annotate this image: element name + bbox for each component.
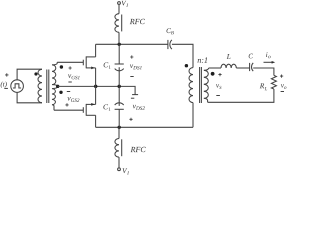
resistor RL [271, 75, 276, 89]
label C1 (top) [104, 62, 111, 68]
choke RFC2 [115, 139, 122, 158]
label C1 (bottom) [103, 104, 110, 110]
wire secondary top lead to L [209, 67, 221, 69]
label n:1 [198, 57, 208, 62]
label io with arrow [264, 52, 276, 63]
label vDS2 with - and + [129, 98, 144, 121]
label RFC (top) [130, 19, 145, 24]
transformer T2 secondary winding [204, 68, 209, 102]
terminal VI top [118, 2, 121, 5]
transformer T2 secondary dot [211, 72, 215, 76]
transistor Q2 (bottom MOSFET) [83, 103, 95, 116]
capacitor C1 top [115, 64, 124, 71]
wire bottom rail [96, 126, 193, 128]
label vGS2 with - above and + below [65, 92, 79, 107]
source VG square-wave generator [11, 80, 24, 93]
ground [132, 94, 138, 96]
label L [227, 54, 231, 59]
wire top rail [96, 43, 168, 45]
label C [249, 54, 253, 59]
transformer T1 primary winding [38, 69, 42, 102]
wire RFC2 to VI terminal [118, 157, 120, 168]
transformer T2 primary winding [189, 68, 193, 103]
transformer T1 primary dot [34, 72, 37, 75]
wire L to C [236, 67, 249, 69]
transformer T1 core [47, 70, 49, 104]
node bottom rail junction [118, 126, 121, 129]
wire C1 top column [118, 44, 120, 64]
wire VI to RFC1 [118, 4, 120, 13]
node center-tap junction on middle rail [56, 85, 59, 88]
label RL [260, 83, 267, 90]
wire C1 bottom to bottom rail [118, 109, 120, 127]
wire VG top lead to T1 primary [17, 69, 42, 80]
wire sources column Q1-Q2 through middle rail [95, 68, 97, 105]
wire RL to load bottom return [208, 89, 274, 102]
wire C to load corner [253, 68, 274, 75]
wire CB to T2 primary riser [172, 44, 193, 67]
wire gate lead to Q2 [54, 109, 83, 111]
wire RFC1 to top rail [118, 32, 120, 44]
wire C1 top to middle rail [118, 67, 120, 86]
inductor L [221, 64, 236, 68]
label vGS1 with + above and - below [68, 66, 80, 82]
wire Q1 drain riser to top rail [95, 44, 97, 57]
transformer T1 secondary 2 winding [52, 86, 58, 110]
label CB [167, 28, 174, 34]
capacitor C1 bottom [115, 103, 124, 110]
label vo with + and - [280, 75, 286, 92]
transformer T1 secondary 2 dot [59, 91, 62, 94]
transistor Q1 (top MOSFET) [83, 56, 95, 69]
transformer T2 core [200, 67, 202, 103]
terminal VI bottom [118, 168, 121, 171]
wire Q2 drain drop to bottom rail [95, 115, 97, 127]
node C1 midpoint junction on middle rail [118, 85, 121, 88]
label RFC (bottom) [131, 147, 146, 152]
capacitor CB [168, 40, 172, 49]
transformer T2 primary dot [185, 64, 188, 67]
wire VG bottom lead to T1 primary [17, 92, 42, 102]
label vDS1 with + and - [130, 55, 142, 76]
label input + v(t) - (clipped at left edge) [1, 73, 9, 88]
wire middle rail (center tap to ground corner) [58, 86, 135, 94]
wire gate lead to Q1 [57, 61, 83, 63]
choke RFC1 [115, 14, 122, 33]
wire T2 primary bottom riser to bottom rail [192, 103, 194, 128]
transformer T1 secondary 1 winding [52, 62, 58, 86]
label VI (bottom) [123, 168, 129, 174]
wire middle rail to C1 bottom [118, 86, 120, 106]
capacitor C [250, 63, 254, 71]
node sources junction on middle rail [94, 85, 97, 88]
label vS with + and - [216, 73, 222, 96]
wire bottom rail to RFC2 [118, 127, 120, 138]
node top rail junction [118, 43, 121, 46]
label VI (top) [122, 1, 128, 7]
transformer T1 secondary 1 dot [60, 65, 63, 68]
